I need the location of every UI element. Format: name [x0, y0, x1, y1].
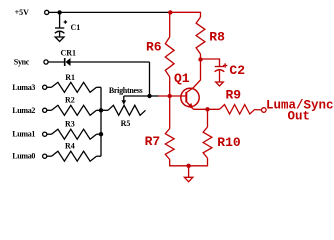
svg-text:Brightness: Brightness [109, 86, 143, 95]
svg-text:R4: R4 [65, 142, 75, 151]
svg-text:R9: R9 [226, 88, 242, 103]
svg-text:Sync: Sync [14, 58, 30, 67]
svg-text:C1: C1 [71, 23, 81, 32]
svg-text:Out: Out [288, 110, 311, 124]
svg-text:R5: R5 [121, 119, 131, 128]
svg-text:R2: R2 [65, 96, 75, 105]
svg-text:CR1: CR1 [61, 49, 77, 58]
svg-text:R7: R7 [145, 134, 161, 149]
svg-text:Luma3: Luma3 [12, 83, 35, 92]
svg-text:+5V: +5V [15, 8, 30, 17]
svg-text:C2: C2 [229, 63, 245, 78]
svg-text:Luma1: Luma1 [12, 130, 35, 139]
svg-text:R6: R6 [146, 40, 162, 55]
svg-text:Luma0: Luma0 [12, 152, 35, 161]
svg-text:R10: R10 [217, 135, 241, 150]
svg-text:R8: R8 [209, 30, 225, 45]
svg-text:Q1: Q1 [174, 71, 190, 86]
svg-text:R1: R1 [65, 73, 75, 82]
svg-text:Luma2: Luma2 [12, 106, 35, 115]
svg-text:R3: R3 [65, 120, 75, 129]
